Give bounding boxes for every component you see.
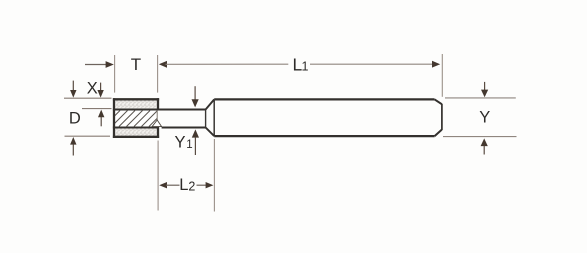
extension line L2 left (157, 141, 159, 211)
dimension X upper arrow (97, 83, 103, 98)
neck top line (158, 109, 206, 111)
svg-text:2: 2 (188, 179, 195, 193)
extension line shank end (L1) (441, 54, 443, 97)
dimension L1 right arrowhead (432, 61, 440, 68)
label Y (479, 109, 490, 127)
dimension L1 line left part (166, 63, 289, 65)
label L1 (293, 55, 309, 75)
shank end bottom chamfer (435, 130, 442, 137)
dimension L2 line left stub (166, 184, 180, 186)
svg-text:L: L (179, 176, 188, 194)
svg-text:D: D (69, 109, 81, 127)
head inner line (hatch top) (113, 108, 158, 110)
taper start vertical (205, 109, 207, 128)
dimension L1 line right part (310, 63, 434, 65)
dimension Y1 lower arrow (192, 129, 199, 155)
label Y1 (175, 134, 193, 152)
extension line L2 right (213, 139, 215, 212)
dimension L1 left arrowhead (159, 61, 167, 68)
svg-text:1: 1 (302, 60, 309, 74)
hidden face line in hatch band (156, 111, 158, 121)
extension line Y bottom (443, 136, 517, 138)
head inner line (hatch bottom) (113, 126, 158, 128)
shank bottom line (214, 135, 434, 137)
shank end cap (441, 104, 443, 130)
shank top line (214, 98, 434, 100)
extension line head right (T/L1) (157, 55, 159, 93)
label T (131, 55, 141, 74)
shank end top chamfer (435, 99, 442, 104)
braze center triangle (152, 120, 162, 127)
cutter head body (white base) (114, 99, 158, 137)
label D (69, 109, 81, 127)
svg-text:Y: Y (479, 109, 490, 127)
dimension L2 line right stub (197, 184, 208, 186)
shank start vertical (213, 99, 215, 136)
dimension X lower arrow (98, 110, 104, 127)
dimension Y upper arrow (481, 82, 488, 97)
cutter head outline (113, 98, 159, 138)
cutter head top stipple band (115, 100, 157, 108)
extension line D bottom (65, 135, 111, 137)
neck bottom line (162, 127, 206, 129)
extension line Y top (445, 97, 516, 99)
dimension T arrowhead (106, 61, 114, 68)
taper top diagonal (206, 99, 215, 109)
svg-text:Y: Y (175, 134, 186, 152)
label X (87, 79, 98, 97)
dimension Y1 upper arrow (192, 86, 199, 107)
label L2 (179, 176, 195, 194)
dimension L2 right arrowhead (206, 182, 214, 188)
extension line head left (T) (114, 55, 116, 93)
svg-text:T: T (131, 55, 141, 74)
dimension L2 left arrowhead (159, 182, 167, 188)
extension line X bottom (neck top level) (82, 108, 112, 110)
dimension D lower arrow (70, 137, 76, 156)
dimension Y lower arrow (481, 138, 488, 154)
svg-text:1: 1 (186, 139, 192, 151)
dimension T arrow stem (85, 64, 107, 66)
extension line D top (64, 97, 112, 99)
svg-text:X: X (87, 79, 98, 97)
taper bottom diagonal (206, 128, 215, 137)
cutter head bottom stipple band (115, 129, 157, 136)
dimension D upper arrow (70, 81, 76, 98)
cutter head hatch section (104, 111, 165, 127)
